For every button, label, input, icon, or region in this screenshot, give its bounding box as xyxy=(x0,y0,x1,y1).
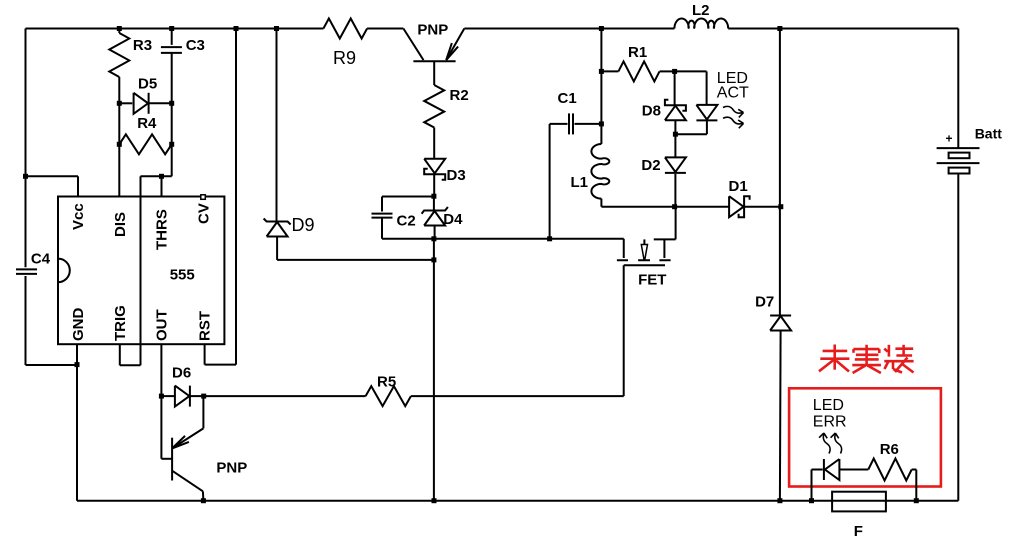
svg-text:R9: R9 xyxy=(333,48,356,68)
svg-text:PNP: PNP xyxy=(417,22,448,39)
svg-text:ERR: ERR xyxy=(813,414,847,431)
svg-text:R6: R6 xyxy=(880,441,899,458)
svg-text:F: F xyxy=(854,523,863,540)
svg-text:D3: D3 xyxy=(447,167,466,184)
svg-text:R3: R3 xyxy=(133,37,152,54)
svg-text:D8: D8 xyxy=(642,103,661,120)
svg-text:D4: D4 xyxy=(443,211,463,228)
svg-text:C3: C3 xyxy=(186,37,205,54)
svg-text:R4: R4 xyxy=(137,115,157,132)
svg-text:C4: C4 xyxy=(31,251,51,268)
svg-text:ACT: ACT xyxy=(717,85,749,102)
svg-text:OUT: OUT xyxy=(154,309,171,341)
svg-text:PNP: PNP xyxy=(216,460,247,477)
svg-text:Vcc: Vcc xyxy=(70,203,87,230)
svg-text:D6: D6 xyxy=(172,365,191,382)
svg-text:L2: L2 xyxy=(692,2,710,19)
svg-text:R1: R1 xyxy=(628,44,647,61)
svg-text:R2: R2 xyxy=(450,87,469,104)
svg-text:R5: R5 xyxy=(377,374,396,391)
svg-text:D1: D1 xyxy=(729,178,748,195)
svg-text:555: 555 xyxy=(170,267,195,284)
svg-text:D9: D9 xyxy=(292,215,315,235)
svg-text:D7: D7 xyxy=(755,294,774,311)
svg-text:D2: D2 xyxy=(641,157,660,174)
svg-text:D5: D5 xyxy=(138,76,157,93)
svg-text:FET: FET xyxy=(638,272,666,289)
svg-text:THRS: THRS xyxy=(154,209,171,250)
svg-text:C1: C1 xyxy=(558,90,577,107)
svg-text:CV: CV xyxy=(196,203,213,224)
svg-text:RST: RST xyxy=(197,311,214,341)
svg-text:L1: L1 xyxy=(571,174,589,191)
svg-text:TRIG: TRIG xyxy=(112,305,129,341)
svg-text:GND: GND xyxy=(70,308,87,342)
svg-text:LED: LED xyxy=(813,397,844,414)
svg-text:DIS: DIS xyxy=(112,212,129,237)
svg-text:+: + xyxy=(945,132,952,146)
svg-text:C2: C2 xyxy=(397,213,416,230)
svg-text:Batt: Batt xyxy=(975,126,1003,142)
